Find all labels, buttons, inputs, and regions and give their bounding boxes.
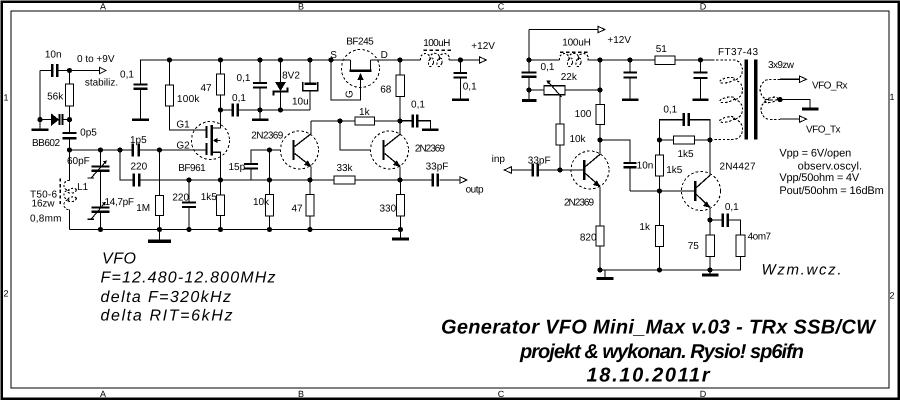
resistor 820 <box>596 226 604 270</box>
dashed line 100uH C <box>424 49 452 51</box>
svg-text:1p5: 1p5 <box>130 135 147 146</box>
arrow outp <box>460 177 467 183</box>
node Q1 collector / Q2 base <box>337 118 342 123</box>
ground 0,1 left <box>132 119 149 122</box>
node bus 1M <box>157 227 162 232</box>
svg-text:C: C <box>498 2 505 12</box>
svg-text:0p5: 0p5 <box>80 128 97 139</box>
svg-text:1k5: 1k5 <box>677 149 694 160</box>
capacitor 0,1 horizontal y110 <box>231 104 239 117</box>
wire Q1 collector to 1k <box>311 120 400 122</box>
node Q2 collector <box>397 118 402 123</box>
wire secondary tap ground <box>780 100 810 108</box>
svg-text:B: B <box>298 2 304 12</box>
wire VFO_Tx <box>780 118 800 120</box>
svg-text:22k: 22k <box>561 72 578 83</box>
transformer secondary winding <box>760 79 780 119</box>
svg-text:Vpp = 6V/open: Vpp = 6V/open <box>779 148 851 160</box>
capacitor 0,1 at 700.5 <box>694 60 708 99</box>
svg-text:18.10.2011r: 18.10.2011r <box>587 365 711 387</box>
node bus 47 <box>307 227 312 232</box>
resistor 47 mid <box>306 180 314 230</box>
node Q4 base bias <box>657 188 662 193</box>
node tank left <box>67 147 72 152</box>
svg-text:56k: 56k <box>47 92 64 103</box>
svg-text:16zw: 16zw <box>32 199 56 210</box>
svg-text:inp: inp <box>492 154 506 165</box>
svg-text:D: D <box>381 50 388 61</box>
capacitor 220 upper <box>132 174 140 187</box>
wire ground bus right <box>600 269 710 271</box>
capacitor 0p5 <box>63 120 77 150</box>
svg-text:60pF: 60pF <box>67 156 90 167</box>
node y110 ground tap <box>257 107 262 112</box>
svg-text:15p: 15p <box>228 162 245 173</box>
svg-text:8V2: 8V2 <box>282 71 300 82</box>
potentiometer 22k <box>529 80 600 97</box>
node 47 top <box>218 57 223 62</box>
svg-text:0,1: 0,1 <box>725 202 739 213</box>
text block Vpp measurements <box>779 148 883 198</box>
wire +9V tuning line <box>40 71 100 120</box>
svg-text:2N2369: 2N2369 <box>251 131 283 142</box>
resistor 47 top <box>217 60 225 110</box>
resistor 1k5 horizontal <box>660 136 711 144</box>
svg-text:2N2369: 2N2369 <box>415 144 445 155</box>
wire VFO_Rx <box>780 78 800 80</box>
resistor 10k right wiper <box>556 95 564 170</box>
svg-text:100: 100 <box>575 109 592 120</box>
ground right bus 605 <box>597 270 614 280</box>
inductor 100uH section D <box>559 53 588 67</box>
text block title <box>441 317 877 387</box>
svg-text:0,1: 0,1 <box>232 93 246 104</box>
inductor L1 <box>69 150 71 230</box>
node 10u top <box>307 57 312 62</box>
grid labels bottom <box>100 389 707 399</box>
capacitor 15p <box>244 150 281 180</box>
node 68 top <box>397 57 402 62</box>
wire main tank line y150 <box>70 149 206 151</box>
grid labels left <box>3 93 8 299</box>
node 0,1 rail 630 <box>627 57 632 62</box>
svg-text:Generator VFO Mini_Max v.03 -: Generator VFO Mini_Max v.03 - TRx SSB/CW <box>441 317 877 339</box>
svg-text:stabiliz.: stabiliz. <box>85 78 118 89</box>
resistor 1k5 tank <box>217 180 225 230</box>
capacitor 33pF outp <box>431 174 439 187</box>
node +12V C <box>458 57 463 62</box>
capacitor 10u electrolytic <box>303 60 318 110</box>
svg-text:S: S <box>330 50 337 61</box>
transistor Q2 2N2369 <box>371 121 409 180</box>
node rail 529 <box>526 57 531 62</box>
node 820 bottom <box>597 267 602 272</box>
transistor Q1 2N2369 <box>281 121 319 180</box>
node Q1 base bias <box>267 147 272 152</box>
ground 0,1 460 <box>452 99 469 102</box>
JFET BF245 <box>331 50 380 101</box>
arrow 0 to +9V stabiliz <box>100 67 107 73</box>
svg-text:2N2369: 2N2369 <box>564 198 594 209</box>
node Q3 collector <box>597 137 602 142</box>
svg-text:A: A <box>100 389 106 399</box>
resistor 330 <box>397 180 405 230</box>
svg-text:BF961: BF961 <box>178 163 206 174</box>
inductor 100uH section C <box>420 53 449 67</box>
grid labels top <box>100 2 707 12</box>
zener diode 8V2 <box>274 60 288 110</box>
node 22k right on x600 <box>597 87 602 92</box>
svg-text:Pout/50ohm = 16dBm: Pout/50ohm = 16dBm <box>779 185 883 197</box>
resistor 1k5 vertical <box>656 140 664 191</box>
capacitor 0,1 feedback <box>682 113 690 126</box>
svg-text:observ.oscyl.: observ.oscyl. <box>798 161 863 173</box>
node feedback x660 <box>657 137 662 142</box>
capacitor 0,1 at 460 <box>454 60 468 99</box>
node bus 220 <box>186 227 191 232</box>
node 1k5 top <box>218 177 223 182</box>
capacitor 10n right <box>624 162 637 191</box>
svg-text:0,1: 0,1 <box>663 105 677 116</box>
capacitor 0,1 at 630 <box>624 60 638 99</box>
transistor Q3 2N2369 <box>571 140 609 226</box>
wire 56k branch <box>69 71 71 120</box>
wire +12V rail section D top <box>529 30 598 61</box>
ground 0,1 700.5 <box>693 99 709 102</box>
node y180 branch <box>117 147 122 152</box>
trimmer capacitor 14,7pF <box>88 202 110 230</box>
transformer core bars <box>744 60 748 140</box>
svg-text:330: 330 <box>379 204 396 215</box>
svg-text:0,1: 0,1 <box>541 62 555 73</box>
node 1k bottom <box>657 267 662 272</box>
node 0,1 bus <box>257 57 262 62</box>
svg-text:2: 2 <box>3 289 8 299</box>
L1 core dashed line <box>59 179 61 207</box>
svg-text:100uH: 100uH <box>423 38 450 49</box>
resistor 33k <box>334 176 355 184</box>
node Q3 base <box>557 167 562 172</box>
svg-text:+12V: +12V <box>471 41 495 52</box>
node Q4 emitter <box>707 217 712 222</box>
svg-text:4om7: 4om7 <box>748 232 772 243</box>
svg-text:33k: 33k <box>336 163 353 174</box>
svg-text:10n: 10n <box>45 50 62 61</box>
svg-text:C: C <box>498 389 505 399</box>
svg-text:BB602: BB602 <box>32 138 60 149</box>
node zener top <box>278 57 283 62</box>
svg-text:1k: 1k <box>639 222 651 233</box>
trimmer capacitor 60pF <box>88 150 110 207</box>
wire y110 decoupling line <box>221 109 311 111</box>
svg-text:projekt & wykonan. Rysio! sp6i: projekt & wykonan. Rysio! sp6ifn <box>519 341 804 363</box>
node 220 lower top <box>186 177 191 182</box>
svg-text:VFO_Tx: VFO_Tx <box>806 125 841 136</box>
capacitor 33pF inp <box>531 164 539 177</box>
text block VFO parameters <box>101 251 276 325</box>
arrow inp <box>504 167 511 173</box>
svg-text:68: 68 <box>380 85 392 96</box>
ground secondary <box>802 108 819 111</box>
node bus 1k5 <box>218 227 223 232</box>
svg-text:VFO_Rx: VFO_Rx <box>812 81 848 92</box>
schematic small labels <box>30 35 848 252</box>
capacitor 10n <box>51 64 59 77</box>
resistor 10k mid <box>266 150 274 230</box>
wire Q2 base <box>340 121 371 150</box>
svg-text:10u: 10u <box>292 97 309 108</box>
capacitor 1p5 <box>132 144 140 157</box>
svg-text:220: 220 <box>130 162 147 173</box>
ground 0,1 Q2 <box>422 129 439 132</box>
resistor 100 <box>596 60 605 140</box>
svg-text:L1: L1 <box>77 182 89 193</box>
svg-text:2N4427: 2N4427 <box>720 162 756 173</box>
node bus 14,7pF <box>98 227 103 232</box>
resistor 75 <box>706 220 715 270</box>
svg-text:75: 75 <box>688 241 700 252</box>
svg-text:3x9zw: 3x9zw <box>768 60 795 71</box>
node BF961 drain <box>218 107 223 112</box>
svg-text:1k: 1k <box>359 107 371 118</box>
svg-text:outp: outp <box>466 185 484 196</box>
svg-text:G: G <box>345 90 356 98</box>
node 10n/56k junction <box>67 68 72 73</box>
svg-text:10n: 10n <box>637 161 654 172</box>
node 10k on y180 <box>267 177 272 182</box>
resistor 1k mid <box>355 117 375 125</box>
resistor 1M <box>156 150 164 230</box>
svg-text:D: D <box>700 389 707 399</box>
svg-text:0,1: 0,1 <box>463 82 477 93</box>
svg-text:Wzm.wcz.: Wzm.wcz. <box>762 262 842 279</box>
svg-text:0 to +9V: 0 to +9V <box>77 54 115 65</box>
MOSFET BF961 <box>192 110 230 180</box>
arrow +12V C <box>460 57 486 63</box>
svg-text:10k: 10k <box>569 134 586 145</box>
transistor Q4 2N4427 <box>682 140 721 220</box>
svg-text:0,1: 0,1 <box>411 100 425 111</box>
svg-text:100uH: 100uH <box>562 38 591 49</box>
arrow VFO_Tx <box>800 116 807 122</box>
wire Q3 collector to 10n <box>600 140 630 162</box>
ground y110 <box>252 110 268 121</box>
svg-text:G2: G2 <box>176 141 190 152</box>
wire Q4 base line <box>630 190 694 192</box>
node Q1 emitter on y180 <box>307 177 312 182</box>
node secondary tap <box>777 97 782 102</box>
wire ground bus y229.5 <box>70 229 401 231</box>
arrow VFO_Rx <box>800 76 807 82</box>
svg-text:0,8mm: 0,8mm <box>30 214 62 225</box>
ground right bus <box>392 230 409 241</box>
capacitor 0,1 Q4 emitter <box>710 214 741 236</box>
capacitor 220 lower <box>182 180 196 230</box>
resistor 68 <box>396 60 405 121</box>
svg-text:1: 1 <box>889 92 894 102</box>
svg-text:100k: 100k <box>177 94 201 105</box>
resistor 56k <box>66 84 74 106</box>
ground mid bus <box>148 230 171 244</box>
ground right bus 710 <box>702 270 719 277</box>
svg-text:Vpp/50ohm = 4V: Vpp/50ohm = 4V <box>779 172 859 184</box>
node 75 bottom <box>707 267 712 272</box>
node bus 330 <box>398 227 403 232</box>
svg-text:33pF: 33pF <box>426 161 449 172</box>
resistor 100k <box>166 60 206 130</box>
grid labels right <box>889 92 894 301</box>
svg-text:BF245: BF245 <box>346 37 374 48</box>
svg-text:2: 2 <box>889 291 894 301</box>
ground at 529 <box>522 90 537 102</box>
svg-text:A: A <box>100 2 106 12</box>
svg-text:1: 1 <box>3 93 8 103</box>
ground at BB602 anode <box>32 120 49 131</box>
node 60pF branch <box>98 147 103 152</box>
svg-text:820: 820 <box>580 233 597 244</box>
node Q2 emitter y180 <box>397 177 402 182</box>
wire feedback top <box>660 120 711 140</box>
capacitor 0,1 at 529 <box>522 60 537 90</box>
node 100k top <box>167 57 172 62</box>
node BB602 anode <box>37 117 42 122</box>
svg-text:1k5: 1k5 <box>201 192 218 203</box>
svg-text:10k: 10k <box>253 197 270 208</box>
capacitor 0,1 at 260 <box>253 60 267 110</box>
svg-text:D: D <box>700 2 707 12</box>
node BB602 cathode <box>67 117 72 122</box>
svg-text:47: 47 <box>200 83 212 94</box>
node bus 10k <box>267 227 272 232</box>
svg-text:220: 220 <box>172 193 189 204</box>
svg-text:47: 47 <box>291 204 303 215</box>
svg-text:F=12.480-12.800MHz: F=12.480-12.800MHz <box>101 270 276 287</box>
resistor 4om7 <box>710 235 745 270</box>
node Q4 collector <box>707 137 712 142</box>
node rail x600 <box>597 57 602 62</box>
svg-text:B: B <box>298 389 304 399</box>
wire y180 line <box>120 150 460 180</box>
wire rail y60 right <box>529 59 712 61</box>
svg-text:1M: 1M <box>136 203 150 214</box>
svg-text:0,1: 0,1 <box>120 70 134 81</box>
arrow +12V D <box>598 26 605 32</box>
capacitor 0,1 at Q2 collector <box>400 114 431 128</box>
node 0,1 rail 700.5 <box>698 57 703 62</box>
svg-text:G1: G1 <box>176 120 190 131</box>
node y110 zener <box>278 107 283 112</box>
wire inp line <box>511 169 583 171</box>
resistor 1k right <box>656 191 664 270</box>
dashed line 100uH D <box>560 51 590 53</box>
ground 0,1 630 <box>622 99 639 102</box>
svg-text:0,1: 0,1 <box>237 73 251 84</box>
node 1M branch <box>157 147 162 152</box>
node 22k left <box>526 87 531 92</box>
svg-text:1k5: 1k5 <box>666 165 683 176</box>
svg-text:+12V: +12V <box>607 35 631 46</box>
resistor 51 <box>655 56 675 65</box>
svg-text:VFO: VFO <box>102 251 136 268</box>
svg-text:FT37-43: FT37-43 <box>718 47 758 58</box>
capacitor 0,1 left <box>134 84 148 119</box>
svg-text:33pF: 33pF <box>528 156 551 167</box>
wire supply bus y60 <box>141 60 461 84</box>
diode BB602 varactor <box>40 114 70 125</box>
svg-text:51: 51 <box>656 44 668 55</box>
svg-text:14,7pF: 14,7pF <box>105 197 135 208</box>
node BF245 gate loop <box>328 57 333 62</box>
transformer FT37-43 primary winding <box>710 60 743 140</box>
